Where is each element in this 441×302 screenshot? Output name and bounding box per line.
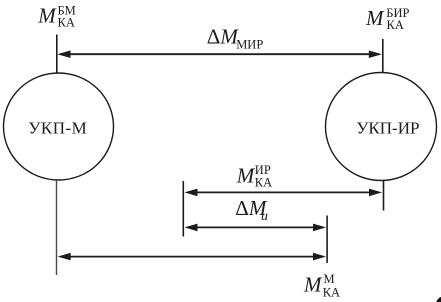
svg-text:МИР: МИР	[236, 38, 263, 52]
svg-text:u: u	[261, 209, 268, 224]
wire: stem below right circle	[383, 181, 385, 211]
wire: stem below left circle	[56, 180, 58, 275]
svg-text:М: М	[324, 272, 335, 286]
svg-text:M: M	[37, 4, 57, 28]
svg-text:УКП-М: УКП-М	[28, 119, 87, 138]
wire: stem above left circle	[56, 35, 58, 74]
node: tick at right end of u/М arrows	[326, 216, 328, 264]
svg-text:M: M	[365, 6, 385, 30]
wire: double arrow ΔM_МИР	[58, 50, 382, 58]
wire: double arrow M_КА^М	[58, 253, 326, 261]
svg-text:M: M	[303, 273, 323, 297]
svg-text:КА: КА	[58, 16, 75, 30]
wire: double arrow ΔM_u	[185, 224, 327, 232]
node: tick at left end of ИР/u arrows	[182, 181, 184, 237]
wire: stem above right circle	[382, 39, 384, 73]
svg-text:КА: КА	[255, 176, 272, 190]
svg-text:КА: КА	[387, 18, 404, 32]
wire: double arrow M_КА^ИР	[185, 189, 383, 197]
svg-text:КА: КА	[323, 285, 340, 299]
svg-text:M: M	[236, 163, 256, 187]
svg-text:УКП-ИР: УКП-ИР	[356, 119, 419, 138]
node: right spacecraft circle УКП-ИР	[326, 73, 437, 181]
scan artifact blob bottom-right corner	[436, 297, 441, 302]
node: left spacecraft circle УКП-М	[4, 73, 114, 180]
svg-text:ΔM: ΔM	[207, 25, 240, 49]
